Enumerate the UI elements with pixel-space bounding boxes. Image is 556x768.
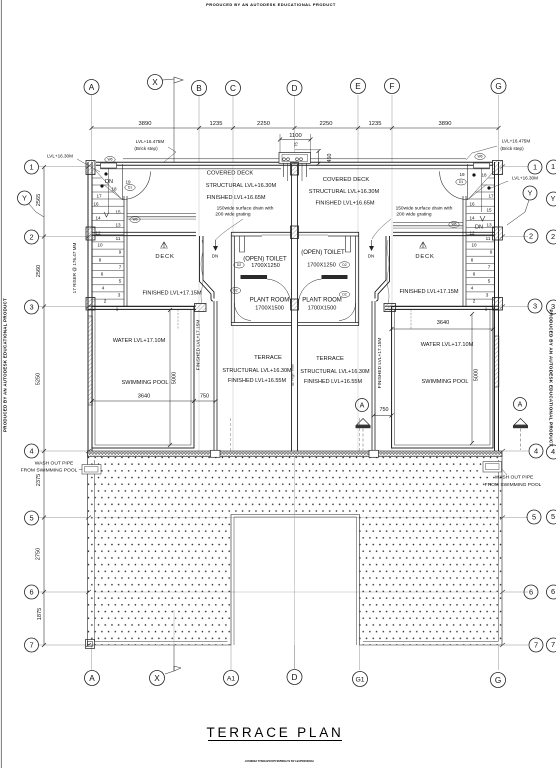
svg-text:F: F	[389, 82, 394, 91]
svg-text:D: D	[292, 84, 298, 93]
row 2 wall left unit	[92, 232, 196, 235]
dim 750 right walkway	[372, 407, 394, 418]
grid circle E top	[351, 79, 366, 94]
row 3 wall left unit	[88, 306, 196, 309]
svg-text:X: X	[152, 78, 158, 87]
door tag D2 plant right	[339, 291, 349, 297]
svg-text:FINISHED LVL+16.65M: FINISHED LVL+16.65M	[315, 201, 374, 207]
svg-text:2250: 2250	[320, 121, 333, 127]
stipple corner post left	[86, 640, 95, 649]
toilet counter right	[322, 275, 348, 279]
svg-text:G: G	[495, 82, 501, 91]
svg-text:4: 4	[471, 286, 474, 291]
drain note right	[372, 206, 453, 240]
DN label right stair	[475, 216, 485, 231]
covered deck inner edge lines	[100, 168, 490, 170]
walkway column left row4	[211, 450, 221, 457]
svg-text:7: 7	[119, 265, 122, 270]
svg-text:PRODUCED BY AN AUTODESK EDUCAT: PRODUCED BY AN AUTODESK EDUCATIONAL PROD…	[549, 310, 554, 447]
grid circle 5 right	[527, 510, 541, 524]
outer clipped circles right edge	[547, 160, 556, 652]
dim 5000 right pool rotated	[470, 312, 480, 445]
dim 750 left walkway	[194, 394, 218, 404]
wall column A row2	[86, 227, 95, 240]
svg-text:6: 6	[473, 272, 476, 277]
DN arrow deck right	[369, 240, 374, 251]
svg-text:15: 15	[486, 208, 492, 213]
toilet door arc right	[298, 279, 321, 305]
entry door right unit	[440, 164, 487, 212]
label LVL+16.30M left	[47, 154, 100, 173]
grid circle A1 bottom	[224, 671, 239, 686]
svg-text:2565: 2565	[36, 194, 42, 206]
svg-text:1: 1	[29, 163, 33, 172]
svg-text:2: 2	[551, 232, 555, 241]
svg-text:FROM SWIMMING POOL: FROM SWIMMING POOL	[21, 468, 78, 474]
svg-text:17: 17	[96, 194, 102, 199]
svg-text:DN: DN	[368, 254, 375, 259]
top exterior wall left unit	[96, 159, 294, 165]
label open toilet right	[301, 250, 345, 269]
svg-text:DECK: DECK	[415, 254, 434, 260]
entry door left unit	[104, 164, 151, 212]
drain line under left landing	[127, 217, 196, 219]
X grid flag top	[163, 77, 184, 162]
wall column G row1	[493, 161, 503, 175]
landing wall right Y	[393, 223, 463, 229]
party wall column row3	[291, 299, 299, 310]
svg-text:2250: 2250	[257, 121, 270, 127]
label terrace left	[222, 355, 292, 384]
svg-text:150wide surface drain with: 150wide surface drain with	[396, 206, 453, 212]
svg-text:750: 750	[380, 407, 389, 413]
center toilet-plant block walls	[231, 232, 359, 325]
plant room arc right	[339, 303, 356, 321]
wall column G row2	[493, 227, 503, 240]
svg-text:3640: 3640	[138, 394, 150, 400]
row 2 wall right unit	[393, 232, 494, 235]
svg-text:19: 19	[459, 172, 465, 177]
svg-text:6: 6	[101, 272, 104, 277]
grid circle B top	[192, 81, 207, 96]
svg-text:1700X1250: 1700X1250	[307, 263, 336, 269]
window tag W6 right landing	[449, 222, 459, 228]
svg-text:FINISHED LVL+17.15M: FINISHED LVL+17.15M	[377, 338, 383, 389]
svg-text:DN: DN	[105, 179, 113, 185]
left exterior wall	[88, 162, 92, 451]
svg-text:17: 17	[488, 194, 494, 199]
svg-text:D2: D2	[237, 263, 241, 267]
svg-text:A: A	[360, 403, 365, 410]
svg-text:6: 6	[551, 587, 555, 596]
svg-text:A: A	[518, 402, 523, 409]
A1 grid dashed above garden	[230, 418, 232, 452]
svg-text:16: 16	[93, 202, 99, 207]
door dot left a	[104, 172, 107, 175]
label brick step left	[134, 139, 176, 162]
svg-text:E: E	[355, 82, 361, 91]
grid circle 7 left	[25, 638, 39, 652]
svg-text:14: 14	[95, 216, 101, 221]
grid circle Y right	[523, 186, 537, 200]
svg-text:7: 7	[29, 641, 33, 650]
svg-text:4: 4	[551, 447, 555, 456]
svg-text:D1: D1	[128, 186, 132, 190]
grid circle 4 right	[529, 444, 543, 458]
svg-text:5: 5	[488, 279, 491, 284]
grid circle G1 bottom	[353, 672, 368, 687]
stair numbers right unit	[459, 172, 494, 312]
grid circle D bottom	[287, 670, 302, 685]
door tag D1 left	[125, 185, 135, 191]
svg-text:10: 10	[471, 243, 477, 248]
right exterior wall	[495, 162, 499, 451]
pool corner column right	[384, 304, 396, 312]
svg-text:W6: W6	[451, 223, 456, 227]
svg-text:D2: D2	[342, 293, 346, 297]
top dimension line	[90, 126, 501, 130]
svg-text:5000: 5000	[172, 372, 178, 384]
svg-text:3: 3	[118, 293, 121, 298]
svg-text:750: 750	[200, 394, 209, 400]
svg-text:TERRACE: TERRACE	[316, 356, 344, 362]
pool deck hatched band row 4	[88, 451, 503, 457]
wash out pipe note right	[483, 462, 542, 489]
grid circle F top	[385, 79, 400, 94]
grid circle 4 left	[25, 444, 39, 458]
svg-text:8: 8	[99, 258, 102, 263]
svg-text:STRUCTURAL LVL+16.30M: STRUCTURAL LVL+16.30M	[300, 369, 370, 375]
swimming pool left	[92, 307, 194, 449]
svg-text:5000: 5000	[474, 369, 480, 381]
grid circle 1 left	[25, 160, 39, 174]
svg-text:D2: D2	[342, 263, 346, 267]
svg-text:WATER LVL+17.10M: WATER LVL+17.10M	[421, 342, 474, 348]
svg-text:12: 12	[469, 231, 475, 236]
svg-text:FINISHED LVL+17.15M: FINISHED LVL+17.15M	[196, 320, 202, 371]
svg-text:2: 2	[529, 232, 533, 241]
svg-text:15: 15	[115, 210, 121, 215]
top exterior wall right unit	[294, 159, 493, 165]
svg-text:4: 4	[102, 286, 105, 291]
svg-text:FROM SWIMMING POOL: FROM SWIMMING POOL	[485, 482, 542, 488]
svg-text:SWIMMING POOL: SWIMMING POOL	[122, 380, 169, 386]
label open toilet left	[243, 257, 287, 270]
svg-text:18: 18	[481, 173, 487, 178]
dim 3640 right pool	[390, 320, 496, 331]
svg-text:FINISHED LVL+17.15M: FINISHED LVL+17.15M	[142, 291, 201, 297]
stipple inner border lines	[95, 460, 499, 645]
svg-text:1700X1250: 1700X1250	[251, 263, 280, 269]
G1 grid dashed above garden	[359, 418, 361, 452]
svg-text:(Brick step): (Brick step)	[134, 146, 158, 151]
svg-text:3: 3	[29, 303, 33, 312]
grid circle 2 left	[25, 230, 39, 244]
section marker A right of pool	[513, 398, 528, 451]
svg-text:DN: DN	[475, 225, 483, 231]
svg-text:COVERED DECK: COVERED DECK	[323, 177, 370, 183]
svg-text:2: 2	[104, 299, 107, 304]
svg-text:8: 8	[471, 258, 474, 263]
svg-text:STRUCTURAL LVL+16.30M: STRUCTURAL LVL+16.30M	[309, 189, 380, 195]
svg-text:10: 10	[97, 243, 103, 248]
window tag W6 top-right	[475, 154, 485, 160]
window W6 right in top wall	[474, 163, 490, 168]
walkway column right row4	[369, 450, 379, 457]
grid circle 6 left	[25, 585, 39, 599]
toilet counter left	[241, 275, 268, 279]
svg-text:3890: 3890	[139, 121, 152, 127]
label brick step right	[466, 139, 530, 161]
left wall hatched segment	[88, 316, 92, 405]
grid circle X top	[148, 75, 163, 90]
svg-text:11: 11	[116, 236, 121, 241]
grid circle 7 right	[529, 638, 543, 652]
svg-text:17 RISER @ 176.47 MM: 17 RISER @ 176.47 MM	[72, 243, 77, 294]
grid circle C top	[226, 81, 241, 96]
grid circle 3 left	[25, 300, 39, 314]
svg-text:3: 3	[551, 302, 555, 311]
label covered deck right	[309, 177, 380, 207]
svg-text:FINISHED LVL+16.65M: FINISHED LVL+16.65M	[206, 195, 265, 201]
svg-text:(OPEN) TOILET: (OPEN) TOILET	[301, 250, 345, 256]
label LVL+16.30M right	[491, 176, 538, 189]
Y leader right	[507, 200, 529, 225]
svg-text:5: 5	[532, 513, 536, 522]
svg-text:1875: 1875	[37, 608, 43, 620]
svg-text:PRODUCED BY AN AUTODESK EDUCAT: PRODUCED BY AN AUTODESK EDUCATIONAL PROD…	[3, 298, 8, 432]
label plant room right	[302, 298, 342, 312]
grid circle X bottom	[150, 671, 165, 686]
grid circle G top	[491, 79, 506, 94]
toilet door jamb left	[240, 236, 245, 252]
stair side wall left unit	[124, 196, 127, 306]
stair side wall right unit	[463, 196, 466, 306]
svg-text:Y: Y	[22, 194, 27, 203]
drain wavy line right	[387, 240, 389, 304]
svg-text:9: 9	[490, 250, 493, 255]
wall column A row1	[86, 161, 95, 175]
svg-text:13: 13	[486, 223, 492, 228]
svg-text:FINISHED LVL+16.55M: FINISHED LVL+16.55M	[304, 379, 363, 385]
center porch	[279, 153, 311, 182]
grid circle Y left	[18, 191, 32, 205]
X grid flag bottom	[165, 645, 181, 674]
window tag W6 top-left	[105, 157, 115, 163]
svg-text:G: G	[495, 676, 501, 685]
svg-text:19: 19	[125, 180, 131, 185]
svg-text:D2: D2	[233, 289, 237, 293]
svg-text:SWIMMING POOL: SWIMMING POOL	[422, 379, 469, 385]
label covered deck left	[206, 171, 277, 202]
wall column G row3	[493, 298, 503, 311]
drain wavy line left	[201, 240, 203, 304]
svg-text:WATER LVL+17.10M: WATER LVL+17.10M	[113, 338, 166, 344]
svg-text:LVL+16.30M: LVL+16.30M	[47, 154, 73, 159]
stair numbers left unit	[93, 180, 131, 312]
dim 3640 left pool	[90, 394, 196, 404]
svg-text:TERRACE PLAN: TERRACE PLAN	[206, 725, 343, 740]
svg-text:150wide surface drain with: 150wide surface drain with	[217, 206, 274, 212]
door dot left b	[100, 184, 103, 187]
door tag D2 toilet right	[339, 262, 349, 268]
svg-text:16: 16	[469, 202, 475, 207]
svg-text:1: 1	[551, 162, 555, 171]
svg-text:3: 3	[533, 302, 537, 311]
svg-text:G1: G1	[355, 676, 364, 683]
svg-text:C: C	[230, 84, 236, 93]
svg-text:STRUCTURAL LVL+16.30M: STRUCTURAL LVL+16.30M	[222, 368, 292, 374]
svg-text:2375: 2375	[36, 474, 42, 486]
svg-text:FINISHED LVL+16.55M: FINISHED LVL+16.55M	[228, 378, 287, 384]
svg-text:5250: 5250	[36, 373, 42, 385]
svg-text:75: 75	[294, 142, 299, 147]
svg-text:A1: A1	[227, 675, 236, 682]
center 1100 dimension	[278, 133, 313, 153]
wall column A row3	[86, 298, 95, 311]
svg-text:A: A	[89, 83, 95, 92]
drain line under right landing	[393, 226, 463, 228]
svg-text:B: B	[196, 84, 202, 93]
svg-text:18: 18	[111, 187, 117, 192]
svg-text:7: 7	[488, 265, 491, 270]
svg-text:9: 9	[119, 250, 122, 255]
toilet door arc left	[267, 279, 291, 305]
UP symbol deck left	[160, 242, 168, 248]
dashed line above pool corner right	[410, 310, 412, 330]
party wall column row2	[291, 226, 299, 239]
grid circle D top	[287, 81, 302, 96]
column grid lines	[92, 95, 499, 670]
UP symbol deck right	[419, 242, 427, 248]
svg-text:4: 4	[534, 447, 538, 456]
row grid line end ticks	[86, 165, 505, 648]
left dimension texts	[36, 194, 44, 620]
svg-text:Y: Y	[551, 194, 556, 203]
svg-text:4: 4	[29, 447, 33, 456]
grid line X in garden	[173, 610, 175, 645]
svg-text:5: 5	[551, 512, 555, 521]
party wall column top	[291, 163, 299, 176]
stair treads right unit	[467, 170, 496, 299]
svg-text:12: 12	[95, 231, 101, 236]
toilet door jamb right	[346, 236, 351, 252]
grid circle A bottom	[85, 671, 100, 686]
svg-text:(Brick step): (Brick step)	[500, 146, 524, 151]
walkway wall right unit with jog	[372, 236, 390, 451]
svg-text:5: 5	[119, 279, 122, 284]
svg-text:2750: 2750	[36, 548, 42, 560]
grid circle G bottom	[491, 673, 506, 688]
svg-text:1100: 1100	[289, 133, 301, 139]
svg-text:2: 2	[473, 299, 476, 304]
svg-text:1235: 1235	[369, 121, 382, 127]
top dimension texts	[139, 121, 452, 127]
stair treads left unit	[93, 170, 125, 299]
window tag W6 left landing	[130, 217, 140, 223]
wash out pipe note left	[21, 461, 101, 475]
svg-text:PLANT ROOM: PLANT ROOM	[250, 298, 290, 304]
svg-text:W6: W6	[132, 218, 137, 222]
svg-text:200 wide grating: 200 wide grating	[396, 211, 432, 217]
svg-text:3: 3	[486, 293, 489, 298]
svg-text:1235: 1235	[210, 121, 223, 127]
svg-text:A: A	[89, 674, 95, 683]
section marker A left of pool	[356, 399, 371, 451]
svg-text:13: 13	[115, 223, 121, 228]
DN arrow deck left	[213, 240, 218, 251]
door dot right b	[487, 186, 490, 189]
landing wall left Y	[127, 214, 196, 220]
svg-text:COVERED DECK: COVERED DECK	[207, 171, 254, 177]
svg-text:1700X1500: 1700X1500	[308, 306, 337, 312]
svg-text:STRUCTURAL LVL+16.30M: STRUCTURAL LVL+16.30M	[206, 183, 277, 189]
DN label top-left stair	[104, 179, 113, 217]
svg-text:3640: 3640	[437, 320, 449, 326]
svg-text:450: 450	[327, 154, 333, 163]
party wall center	[292, 164, 298, 451]
svg-text:6: 6	[29, 588, 33, 597]
svg-text:LVL+16.475M: LVL+16.475M	[502, 139, 531, 144]
svg-text:TERRACE: TERRACE	[254, 355, 282, 361]
left page border line	[0, 0, 2, 768]
grid line D through garden	[294, 457, 296, 670]
svg-text:3890: 3890	[439, 121, 452, 127]
Y leader left	[29, 204, 44, 217]
window W6 left in top wall	[101, 163, 117, 168]
svg-text:WASH OUT PIPE: WASH OUT PIPE	[35, 461, 74, 467]
svg-text:X: X	[154, 674, 160, 683]
door tag D2 toilet left	[234, 262, 244, 268]
stippled ground area	[88, 453, 503, 645]
pool corner column left	[195, 304, 207, 312]
grid circle 5 left	[25, 511, 39, 525]
walkway wall left unit with jog	[200, 236, 218, 451]
svg-text:WASH OUT PIPE: WASH OUT PIPE	[495, 475, 534, 481]
dashed line above pool corner left	[177, 310, 179, 330]
svg-text:11: 11	[486, 236, 491, 241]
title TERRACE PLAN	[206, 725, 343, 741]
svg-text:14: 14	[469, 216, 475, 221]
svg-text:W6: W6	[107, 158, 112, 162]
svg-text:6: 6	[529, 588, 533, 597]
center 75 mini dimension	[294, 142, 299, 147]
label plant room left	[250, 298, 290, 312]
svg-text:PRODUCED BY AN AUTODESK EDUCAT: PRODUCED BY AN AUTODESK EDUCATIONAL PROD…	[244, 759, 313, 762]
grid circle 1 right	[528, 160, 542, 174]
svg-text:1700X1500: 1700X1500	[255, 306, 284, 312]
svg-text:LVL+16.30M: LVL+16.30M	[512, 176, 538, 181]
svg-text:FINISHED LVL+17.15M: FINISHED LVL+17.15M	[399, 289, 458, 295]
svg-text:DECK: DECK	[155, 254, 174, 260]
right wall hatched segment	[495, 336, 499, 387]
svg-text:(OPEN) TOILET: (OPEN) TOILET	[243, 257, 287, 263]
grid circle 6 right	[524, 585, 538, 599]
svg-text:Y: Y	[528, 189, 533, 198]
svg-text:1: 1	[116, 307, 119, 312]
center 450 dimension	[295, 149, 333, 166]
plant room arc left	[234, 303, 251, 321]
row grid lines	[39, 167, 528, 646]
drain note left	[215, 206, 273, 241]
grid circle A top	[84, 80, 99, 95]
door tag D1 right	[456, 179, 466, 185]
svg-text:5: 5	[29, 514, 33, 523]
svg-text:1: 1	[533, 163, 537, 172]
svg-text:200 wide grating: 200 wide grating	[215, 211, 251, 217]
door tag D2 plant left	[230, 288, 240, 294]
left dimension line	[42, 165, 46, 647]
